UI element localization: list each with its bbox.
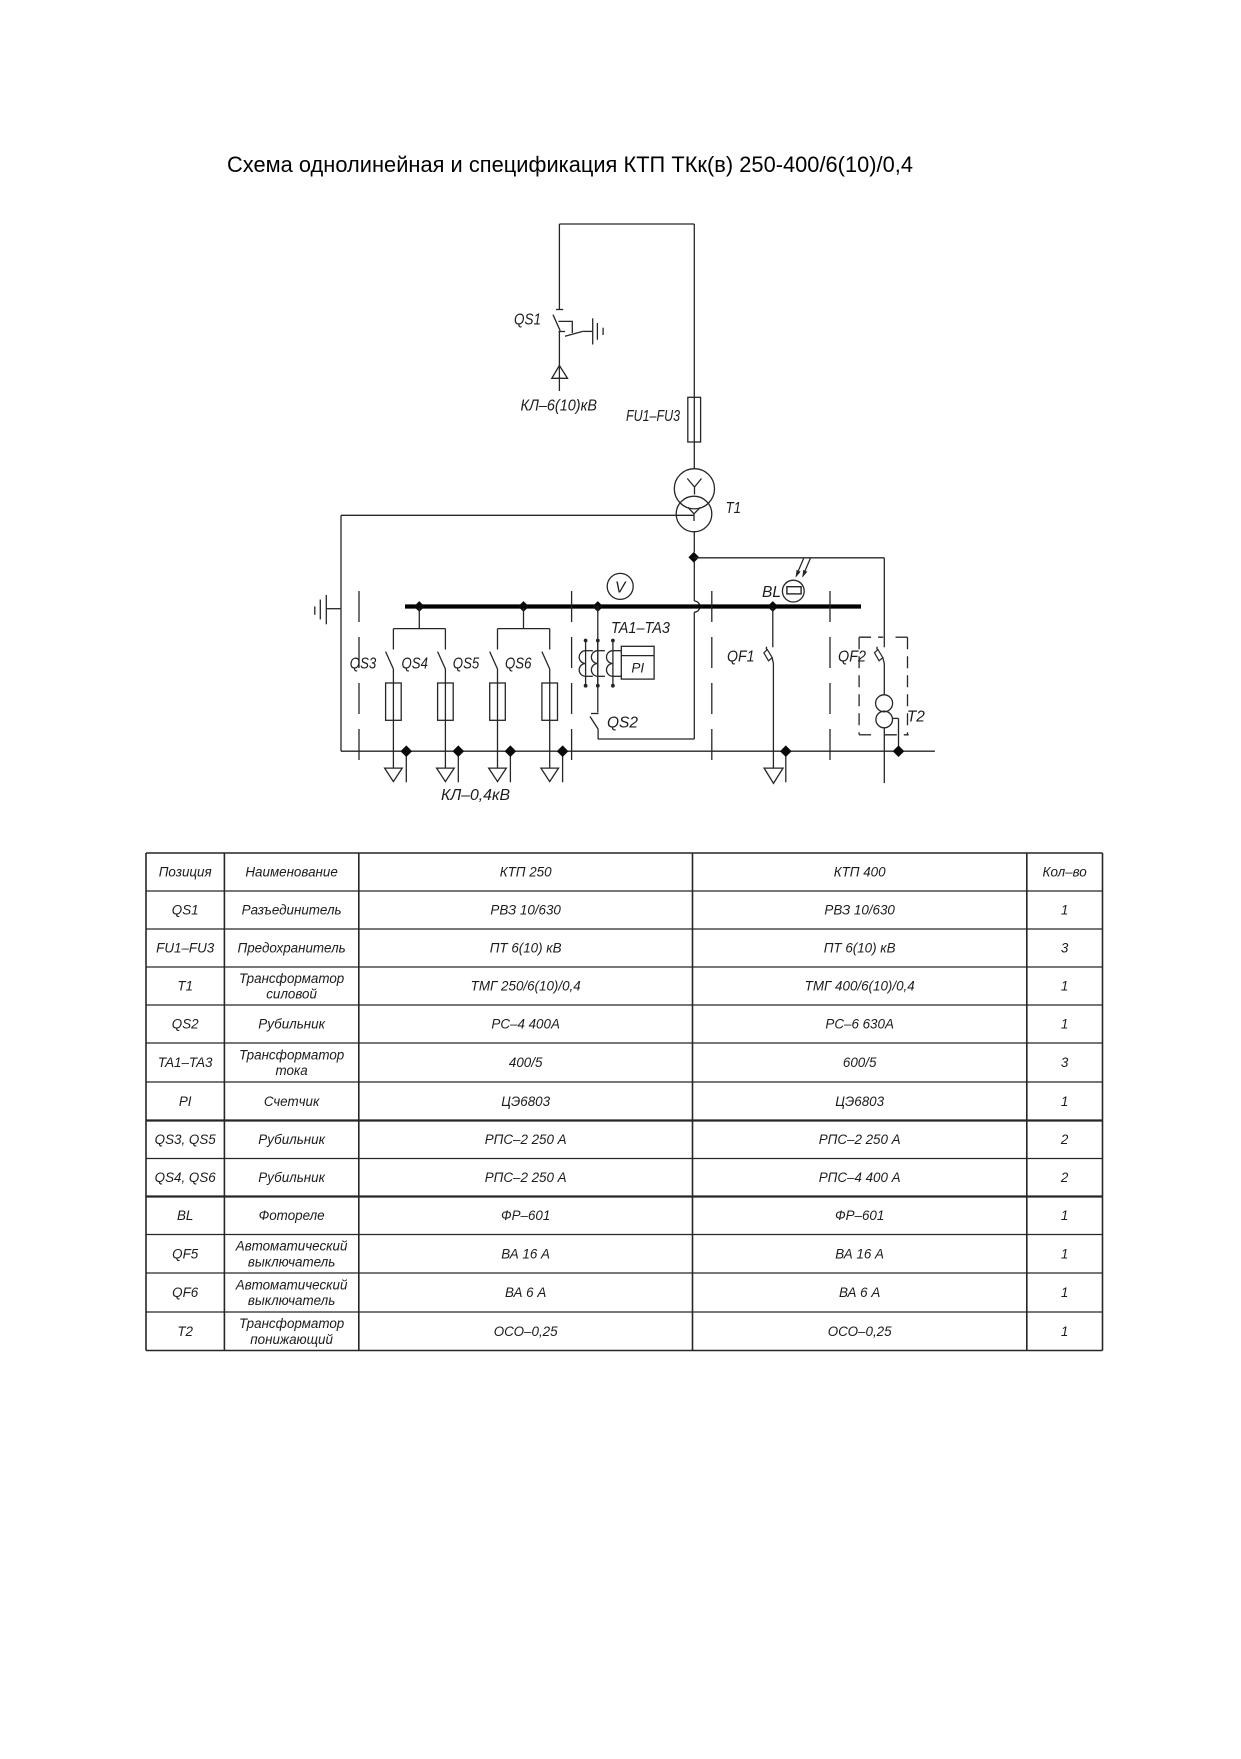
svg-text:ВА 16 А: ВА 16 А [501,1246,550,1261]
svg-text:T1: T1 [726,500,741,517]
svg-text:РВЗ 10/630: РВЗ 10/630 [490,903,561,918]
svg-text:Кол–во: Кол–во [1043,865,1088,880]
svg-text:ЦЭ6803: ЦЭ6803 [501,1094,550,1109]
svg-text:PI: PI [631,660,644,675]
svg-text:КЛ–6(10)кВ: КЛ–6(10)кВ [521,398,598,415]
svg-text:QS3, QS5: QS3, QS5 [155,1132,217,1147]
svg-text:1: 1 [1061,1246,1068,1261]
svg-text:ВА 6 А: ВА 6 А [839,1285,880,1300]
svg-text:TA1–TA3: TA1–TA3 [158,1055,213,1070]
svg-text:КТП 400: КТП 400 [834,865,886,880]
svg-text:Счетчик: Счетчик [264,1094,320,1109]
svg-text:Трансформатор: Трансформатор [239,971,345,986]
svg-text:QS4: QS4 [402,656,429,673]
svg-text:Трансформатор: Трансформатор [239,1316,345,1331]
svg-text:ВА 6 А: ВА 6 А [505,1285,546,1300]
svg-text:ЦЭ6803: ЦЭ6803 [835,1094,884,1109]
svg-text:1: 1 [1061,1017,1068,1032]
svg-text:QS5: QS5 [453,656,480,673]
svg-text:ОСО–0,25: ОСО–0,25 [828,1324,892,1339]
svg-text:PI: PI [179,1094,192,1109]
svg-text:Предохранитель: Предохранитель [238,941,346,956]
svg-text:QS2: QS2 [172,1017,199,1032]
svg-text:QS6: QS6 [505,656,532,673]
svg-text:Рубильник: Рубильник [258,1017,325,1032]
svg-text:1: 1 [1061,1324,1068,1339]
svg-text:T2: T2 [177,1324,193,1339]
svg-text:QF6: QF6 [172,1285,199,1300]
svg-text:ПТ 6(10) кВ: ПТ 6(10) кВ [824,941,896,956]
svg-text:BL: BL [177,1208,193,1223]
svg-text:ОСО–0,25: ОСО–0,25 [494,1324,558,1339]
svg-text:тока: тока [275,1063,307,1078]
svg-text:Позиция: Позиция [159,865,212,880]
svg-text:силовой: силовой [266,987,317,1002]
svg-text:РС–4 400А: РС–4 400А [491,1017,560,1032]
svg-text:Автоматический: Автоматический [235,1239,348,1254]
svg-text:выключатель: выключатель [248,1293,335,1308]
svg-text:QS4, QS6: QS4, QS6 [155,1170,217,1185]
svg-text:2: 2 [1060,1170,1069,1185]
svg-text:V: V [615,579,627,596]
svg-text:QF2: QF2 [838,649,866,666]
svg-text:3: 3 [1061,1055,1069,1070]
svg-text:КТП 250: КТП 250 [500,865,552,880]
svg-text:FU1–FU3: FU1–FU3 [626,408,680,425]
svg-text:1: 1 [1061,1094,1068,1109]
svg-text:2: 2 [1060,1132,1069,1147]
svg-text:3: 3 [1061,941,1069,956]
svg-text:Автоматический: Автоматический [235,1277,348,1292]
svg-text:РС–6 630А: РС–6 630А [825,1017,894,1032]
svg-text:QS1: QS1 [514,312,541,329]
svg-text:QF5: QF5 [172,1246,199,1261]
svg-text:РПС–2 250 А: РПС–2 250 А [485,1170,567,1185]
svg-text:ВА 16 А: ВА 16 А [835,1246,884,1261]
svg-text:BL: BL [762,584,781,601]
svg-text:TA1–TA3: TA1–TA3 [611,620,670,637]
svg-text:ТМГ 250/6(10)/0,4: ТМГ 250/6(10)/0,4 [471,979,581,994]
svg-text:Фотореле: Фотореле [259,1208,325,1223]
svg-text:понижающий: понижающий [250,1332,333,1347]
svg-text:Наименование: Наименование [245,865,337,880]
svg-text:РПС–2 250 А: РПС–2 250 А [819,1132,901,1147]
svg-text:T2: T2 [907,708,925,725]
svg-text:выключатель: выключатель [248,1254,335,1269]
svg-text:Разъединитель: Разъединитель [242,903,342,918]
svg-text:QF1: QF1 [727,649,755,666]
svg-text:QS2: QS2 [607,715,638,732]
svg-text:QS3: QS3 [350,656,377,673]
svg-text:ПТ 6(10) кВ: ПТ 6(10) кВ [490,941,562,956]
svg-text:Трансформатор: Трансформатор [239,1047,345,1062]
svg-text:FU1–FU3: FU1–FU3 [156,941,215,956]
svg-text:400/5: 400/5 [509,1055,543,1070]
svg-text:ФР–601: ФР–601 [501,1208,550,1223]
svg-text:РПС–4 400 А: РПС–4 400 А [819,1170,901,1185]
svg-text:КЛ–0,4кВ: КЛ–0,4кВ [441,787,510,804]
svg-text:1: 1 [1061,1285,1068,1300]
svg-text:Рубильник: Рубильник [258,1170,325,1185]
svg-text:1: 1 [1061,1208,1068,1223]
svg-text:ФР–601: ФР–601 [835,1208,884,1223]
svg-text:ТМГ 400/6(10)/0,4: ТМГ 400/6(10)/0,4 [805,979,915,994]
svg-text:Схема однолинейная и специфика: Схема однолинейная и спецификация КТП ТК… [227,152,913,177]
svg-text:РПС–2 250 А: РПС–2 250 А [485,1132,567,1147]
svg-text:600/5: 600/5 [843,1055,877,1070]
svg-text:QS1: QS1 [172,903,199,918]
svg-text:T1: T1 [177,979,193,994]
svg-text:1: 1 [1061,979,1068,994]
svg-text:Рубильник: Рубильник [258,1132,325,1147]
svg-text:1: 1 [1061,903,1068,918]
svg-text:РВЗ 10/630: РВЗ 10/630 [824,903,895,918]
